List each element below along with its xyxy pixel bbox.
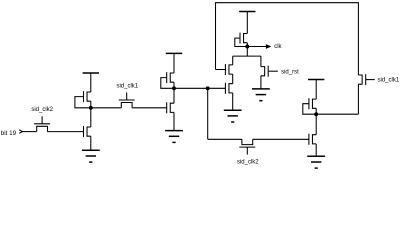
- wire: keeper rail: [233, 55, 261, 57]
- wire: vdd to pmos source stage2: [173, 53, 175, 73]
- nmos keeper Ta: [225, 64, 232, 75]
- wire: pmos drain to output node stage2: [173, 82, 175, 88]
- wire: bit19 port to pass gate: [23, 131, 37, 133]
- svg-text:bit 19: bit 19: [1, 130, 17, 137]
- ground keeper branch: [224, 110, 242, 122]
- wire: Tc source to ground: [232, 93, 234, 110]
- svg-text:clk: clk: [274, 44, 282, 50]
- vdd rail clk pullup: [239, 11, 255, 13]
- wire: pmos gate feedback loop clk: [235, 38, 248, 46]
- wire: pass gate to stage1 nmos gate: [47, 131, 83, 133]
- wire: Td source to ground: [260, 76, 262, 89]
- wire: vdd to pmos source stage3: [315, 80, 317, 100]
- input port arrow bit 19: [19, 130, 22, 133]
- wire: branch node down to bottom rail: [207, 88, 209, 139]
- svg-text:sid_clk1: sid_clk1: [378, 78, 400, 84]
- node feedback branch: [206, 86, 210, 90]
- nmos pass transistor sid_clk1 (mid): [119, 93, 135, 108]
- wire: clk node to output arrow: [247, 46, 266, 48]
- ground stage1: [82, 150, 100, 162]
- wire: feedback pass to stage3 node: [357, 84, 359, 114]
- node stage3 output: [314, 112, 318, 116]
- wire: output node to nmos drain stage2: [173, 88, 175, 103]
- node stage2 output: [172, 86, 176, 90]
- ground stage2: [165, 131, 183, 143]
- wire: stage1 output to pass gate sid_clk1: [91, 107, 122, 109]
- wire: output node to nmos drain stage1: [90, 108, 92, 127]
- wire: pmos gate feedback loop stage1: [75, 97, 91, 108]
- wire: bottom rail right segment: [253, 138, 309, 140]
- nmos pass transistor sid_clk2 (bottom): [239, 139, 255, 154]
- nmos driver stage2: [167, 102, 174, 113]
- pmos clk pullup (diode-connected): [240, 33, 247, 44]
- wire: Ta source to Tc drain: [232, 74, 234, 84]
- wire: rail to Ta drain: [232, 56, 234, 65]
- nmos driver stage3: [309, 134, 316, 145]
- nmos pass transistor sid_clk1 (feedback): [358, 74, 365, 85]
- wire: pmos drain to clk node: [246, 43, 248, 47]
- nmos keeper Tc: [225, 83, 232, 94]
- vdd rail stage2: [166, 52, 182, 54]
- ground stage3: [307, 156, 325, 168]
- node stage1 output: [89, 106, 93, 110]
- vdd rail stage3: [308, 79, 324, 81]
- wire: bottom rail left segment: [208, 138, 242, 140]
- wire: vdd to clk pmos source: [246, 12, 248, 34]
- wire: stage2 output to feedback branch node: [174, 87, 208, 89]
- wire: Td gate lead: [268, 70, 278, 72]
- wire: feedback pass gate lead: [366, 79, 375, 81]
- ground reset branch: [252, 89, 270, 101]
- wire: branch node to keeper nmos Tc gate: [208, 87, 226, 89]
- wire: pmos gate feedback loop stage3: [303, 104, 316, 115]
- pmos load stage2 (diode-connected): [167, 72, 174, 83]
- nmos reset Td: [261, 66, 268, 77]
- node clk: [245, 45, 249, 49]
- wire: vdd to pmos source stage1: [90, 73, 92, 92]
- wire: nmos source to ground stage1: [90, 136, 92, 150]
- wire: nmos source to ground stage3: [315, 144, 317, 156]
- wire: output node to nmos drain stage3: [315, 114, 317, 135]
- svg-text:sid_clk2: sid_clk2: [237, 160, 259, 166]
- svg-text:sid_rst: sid_rst: [281, 70, 299, 76]
- svg-text:sid_clk2: sid_clk2: [31, 107, 53, 113]
- nmos pass transistor sid_clk2 (input): [34, 116, 50, 131]
- wire: pmos gate feedback loop stage2: [161, 78, 174, 89]
- wire: nmos source to ground stage2: [173, 112, 175, 130]
- wire: feedback loop top border: [216, 3, 359, 75]
- wire: stage3 output to right border: [316, 113, 358, 115]
- svg-text:sid_clk1: sid_clk1: [116, 84, 138, 90]
- vdd rail stage1: [83, 72, 99, 74]
- wire: pass gate to stage2 nmos gate: [132, 107, 167, 109]
- pmos load stage1 (diode-connected): [84, 91, 91, 102]
- wire: Ta gate to top border: [216, 69, 226, 71]
- wire: pmos drain to output node stage3: [315, 108, 317, 114]
- wire: pmos drain to output node stage1: [90, 101, 92, 108]
- output arrow clk: [266, 44, 271, 49]
- wire: clk node down to keeper rail: [246, 47, 248, 57]
- wire: rail to Td drain: [260, 56, 262, 67]
- nmos driver stage1: [84, 126, 91, 137]
- pmos load stage3 (diode-connected): [309, 98, 316, 109]
